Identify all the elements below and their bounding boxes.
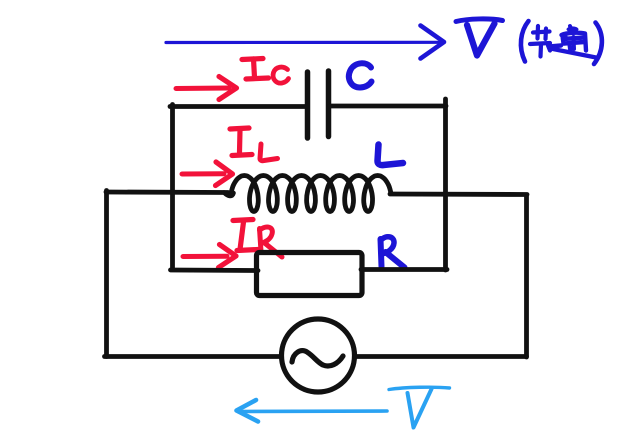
AC source sine wave [292, 351, 343, 366]
label (kyoutsuu) close paren [594, 23, 602, 65]
label (kyoutsuu) open paren [521, 21, 529, 62]
wire outer right vertical [524, 197, 529, 358]
label kanji kyou [530, 26, 550, 57]
wire inner left vertical [170, 105, 175, 270]
wire top left segment [170, 104, 306, 109]
wire bottom inner left segment [171, 268, 259, 273]
label L (blue) [378, 145, 404, 166]
wire outer left vertical [104, 191, 109, 357]
current arrow Ic (red) [176, 77, 237, 100]
current arrow IL (red) [182, 162, 233, 186]
capacitor C1 right plate [326, 71, 332, 137]
wire top right segment [330, 104, 446, 109]
wire inner right vertical [443, 99, 448, 270]
node label V-bar (blue) [456, 19, 503, 56]
label C (blue) [349, 63, 372, 87]
current arrow IR (red) [183, 245, 236, 268]
label R (blue) [381, 237, 405, 268]
wire outer bottom left segment [105, 354, 282, 359]
voltage arrow V bottom (cyan, pointing left) [237, 400, 388, 422]
wire middle left segment [106, 190, 228, 195]
wire coil entry hook [224, 193, 234, 196]
label kanji tsuu [550, 26, 597, 58]
resistor R1 body [257, 253, 363, 296]
wire bottom inner right segment [361, 267, 447, 272]
label IL (red) [230, 128, 278, 161]
label V-bar bottom (cyan) [389, 387, 450, 427]
wire middle right segment [390, 192, 527, 197]
AC source V1 circle [282, 319, 355, 392]
inductor L1 coil [231, 176, 391, 212]
label Ic (red) [242, 59, 289, 84]
node V top arrow (phasor V common) [166, 26, 444, 59]
wire outer bottom right segment [355, 354, 527, 359]
label IR (red) [233, 220, 282, 258]
capacitor C1 left plate [305, 72, 311, 138]
